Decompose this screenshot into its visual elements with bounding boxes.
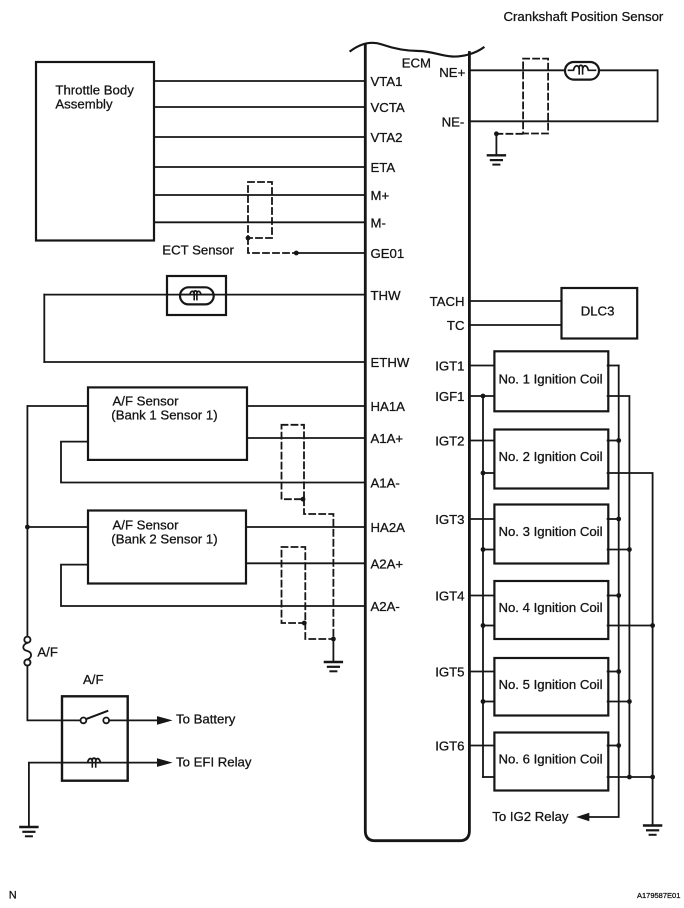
svg-text:To Battery: To Battery: [176, 712, 236, 727]
wire ETA: [154, 160, 395, 175]
svg-text:IGT3: IGT3: [435, 512, 464, 527]
junction dot GE01: [294, 251, 299, 256]
junction dot shield1 corner: [301, 497, 306, 502]
wire A2A+: [246, 557, 403, 572]
ground NE shield: [488, 134, 505, 165]
wire fuse to relay: [27, 666, 62, 721]
svg-text:A/F Sensor: A/F Sensor: [113, 393, 180, 408]
wire to battery with arrow: [128, 712, 236, 727]
wire VTA2: [154, 130, 403, 145]
wire GE01: [296, 246, 404, 261]
wire NE+: [439, 65, 657, 80]
wire IGT6: [435, 739, 494, 754]
svg-text:GE01: GE01: [371, 246, 405, 261]
svg-text:A/F Sensor: A/F Sensor: [113, 517, 180, 532]
A/F Sensor Bank 1 box: [88, 387, 247, 460]
junction dot shield2 corner: [302, 621, 307, 626]
svg-text:ECT Sensor: ECT Sensor: [162, 243, 234, 258]
svg-text:To IG2 Relay: To IG2 Relay: [492, 809, 569, 824]
ignition coil 3 box: [494, 505, 608, 564]
svg-text:A1A-: A1A-: [371, 476, 400, 491]
wire NE-: [442, 114, 658, 129]
ignition coil 5 box: [494, 658, 608, 716]
ground relay: [20, 827, 37, 836]
wire +B bus: [589, 366, 621, 818]
wire to EFI relay with arrow: [128, 754, 252, 769]
relay A/F box: [62, 696, 128, 780]
wire A2A-: [61, 565, 400, 615]
wire HA1A: [27, 399, 405, 414]
wire IGT5: [435, 665, 494, 680]
arrow to IG2 relay: [492, 809, 589, 824]
wire IGT2: [435, 434, 494, 449]
ground shield A/F sensors: [325, 639, 342, 671]
wire VTA1: [154, 74, 403, 89]
crankshaft sensor pickup: [565, 62, 599, 80]
svg-text:To EFI Relay: To EFI Relay: [176, 754, 252, 769]
svg-text:ETA: ETA: [371, 160, 396, 175]
ECT sensor box: [167, 276, 226, 315]
svg-text:N: N: [9, 890, 17, 902]
svg-text:HA2A: HA2A: [371, 520, 406, 535]
svg-text:No. 4 Ignition Coil: No. 4 Ignition Coil: [498, 600, 602, 615]
junction dot HA2A rail: [25, 525, 30, 530]
wire coil ground bus B: [608, 473, 655, 825]
svg-text:TACH: TACH: [430, 294, 465, 309]
shield around A2A wires: [282, 547, 334, 639]
svg-text:Assembly: Assembly: [55, 97, 113, 112]
wire IGF bus: [481, 396, 495, 777]
wire coil ground bus A: [608, 396, 632, 779]
svg-text:TC: TC: [447, 318, 465, 333]
svg-text:HA1A: HA1A: [371, 399, 406, 414]
svg-text:M+: M+: [371, 188, 390, 203]
shield around A1A wires: [282, 425, 334, 639]
svg-text:No. 3 Ignition Coil: No. 3 Ignition Coil: [498, 524, 602, 539]
relay coil: [62, 758, 128, 767]
wire THW: [44, 288, 401, 303]
wire A1A-: [61, 442, 400, 491]
svg-text:(Bank 1 Sensor 1): (Bank 1 Sensor 1): [111, 407, 217, 422]
wire TACH: [430, 294, 562, 309]
wire relay to ground: [29, 763, 62, 826]
svg-text:THW: THW: [371, 288, 402, 303]
svg-text:A179587E01: A179587E01: [637, 891, 680, 900]
A/F Sensor Bank 2 box: [88, 511, 246, 584]
svg-text:IGT4: IGT4: [435, 589, 464, 604]
svg-text:NE-: NE-: [442, 114, 465, 129]
ignition coil 4 box: [494, 581, 608, 639]
wire A1A+: [247, 431, 403, 446]
ignition coil 1 box: [494, 351, 608, 411]
ignition coil 2 box: [494, 430, 608, 489]
wire ETHW loop: [44, 295, 410, 371]
svg-text:A1A+: A1A+: [371, 431, 404, 446]
junction dot shield drain: [331, 637, 336, 642]
wire IGT1: [435, 359, 494, 374]
svg-text:M-: M-: [371, 216, 386, 231]
svg-text:A2A-: A2A-: [371, 599, 400, 614]
svg-text:Throttle Body: Throttle Body: [55, 83, 134, 98]
svg-text:IGT2: IGT2: [435, 434, 464, 449]
DLC3 box: [562, 288, 638, 339]
wire HA2A: [27, 520, 405, 535]
wire IGT3: [435, 512, 494, 527]
svg-text:Crankshaft Position Sensor: Crankshaft Position Sensor: [504, 9, 664, 24]
shield around M+/M- wires: [248, 182, 296, 253]
svg-text:VCTA: VCTA: [371, 100, 405, 115]
ECM box U1: [351, 43, 484, 841]
wire IGT4: [435, 589, 494, 604]
svg-text:No. 2 Ignition Coil: No. 2 Ignition Coil: [498, 449, 602, 464]
svg-text:No. 6 Ignition Coil: No. 6 Ignition Coil: [498, 752, 602, 767]
Throttle Body Assembly box: [36, 62, 154, 241]
svg-text:(Bank 2 Sensor 1): (Bank 2 Sensor 1): [111, 531, 217, 546]
svg-text:IGT1: IGT1: [435, 359, 464, 374]
svg-text:ETHW: ETHW: [371, 355, 410, 370]
svg-text:No. 1 Ignition Coil: No. 1 Ignition Coil: [498, 371, 602, 386]
shield around NE wires: [496, 59, 548, 134]
svg-text:A/F: A/F: [83, 672, 104, 687]
wire IGF1: [435, 389, 494, 404]
svg-text:No. 5 Ignition Coil: No. 5 Ignition Coil: [498, 677, 602, 692]
svg-text:IGF1: IGF1: [435, 389, 464, 404]
wire TC: [447, 318, 562, 333]
ground ignition coils: [644, 826, 661, 835]
svg-text:IGT6: IGT6: [435, 739, 464, 754]
svg-text:A2A+: A2A+: [371, 557, 404, 572]
svg-text:NE+: NE+: [439, 65, 465, 80]
svg-text:A/F: A/F: [37, 645, 58, 660]
fuse A/F: [23, 637, 58, 666]
junction dot NE shield ground: [494, 131, 499, 136]
wire NE loop right: [657, 70, 659, 121]
wire HA rail: [26, 406, 28, 637]
svg-text:IGT5: IGT5: [435, 665, 464, 680]
junction dot IGF1 bus: [481, 394, 486, 399]
svg-text:DLC3: DLC3: [581, 304, 615, 319]
wire M-: [154, 216, 386, 231]
relay switch contacts: [62, 711, 128, 723]
svg-text:VTA1: VTA1: [371, 74, 403, 89]
wire M+: [154, 188, 389, 203]
wire VCTA: [154, 100, 405, 115]
svg-text:VTA2: VTA2: [371, 130, 403, 145]
junction dot shield M corner: [246, 236, 251, 241]
svg-text:ECM: ECM: [402, 55, 431, 70]
ignition coil 6 box: [494, 733, 608, 791]
